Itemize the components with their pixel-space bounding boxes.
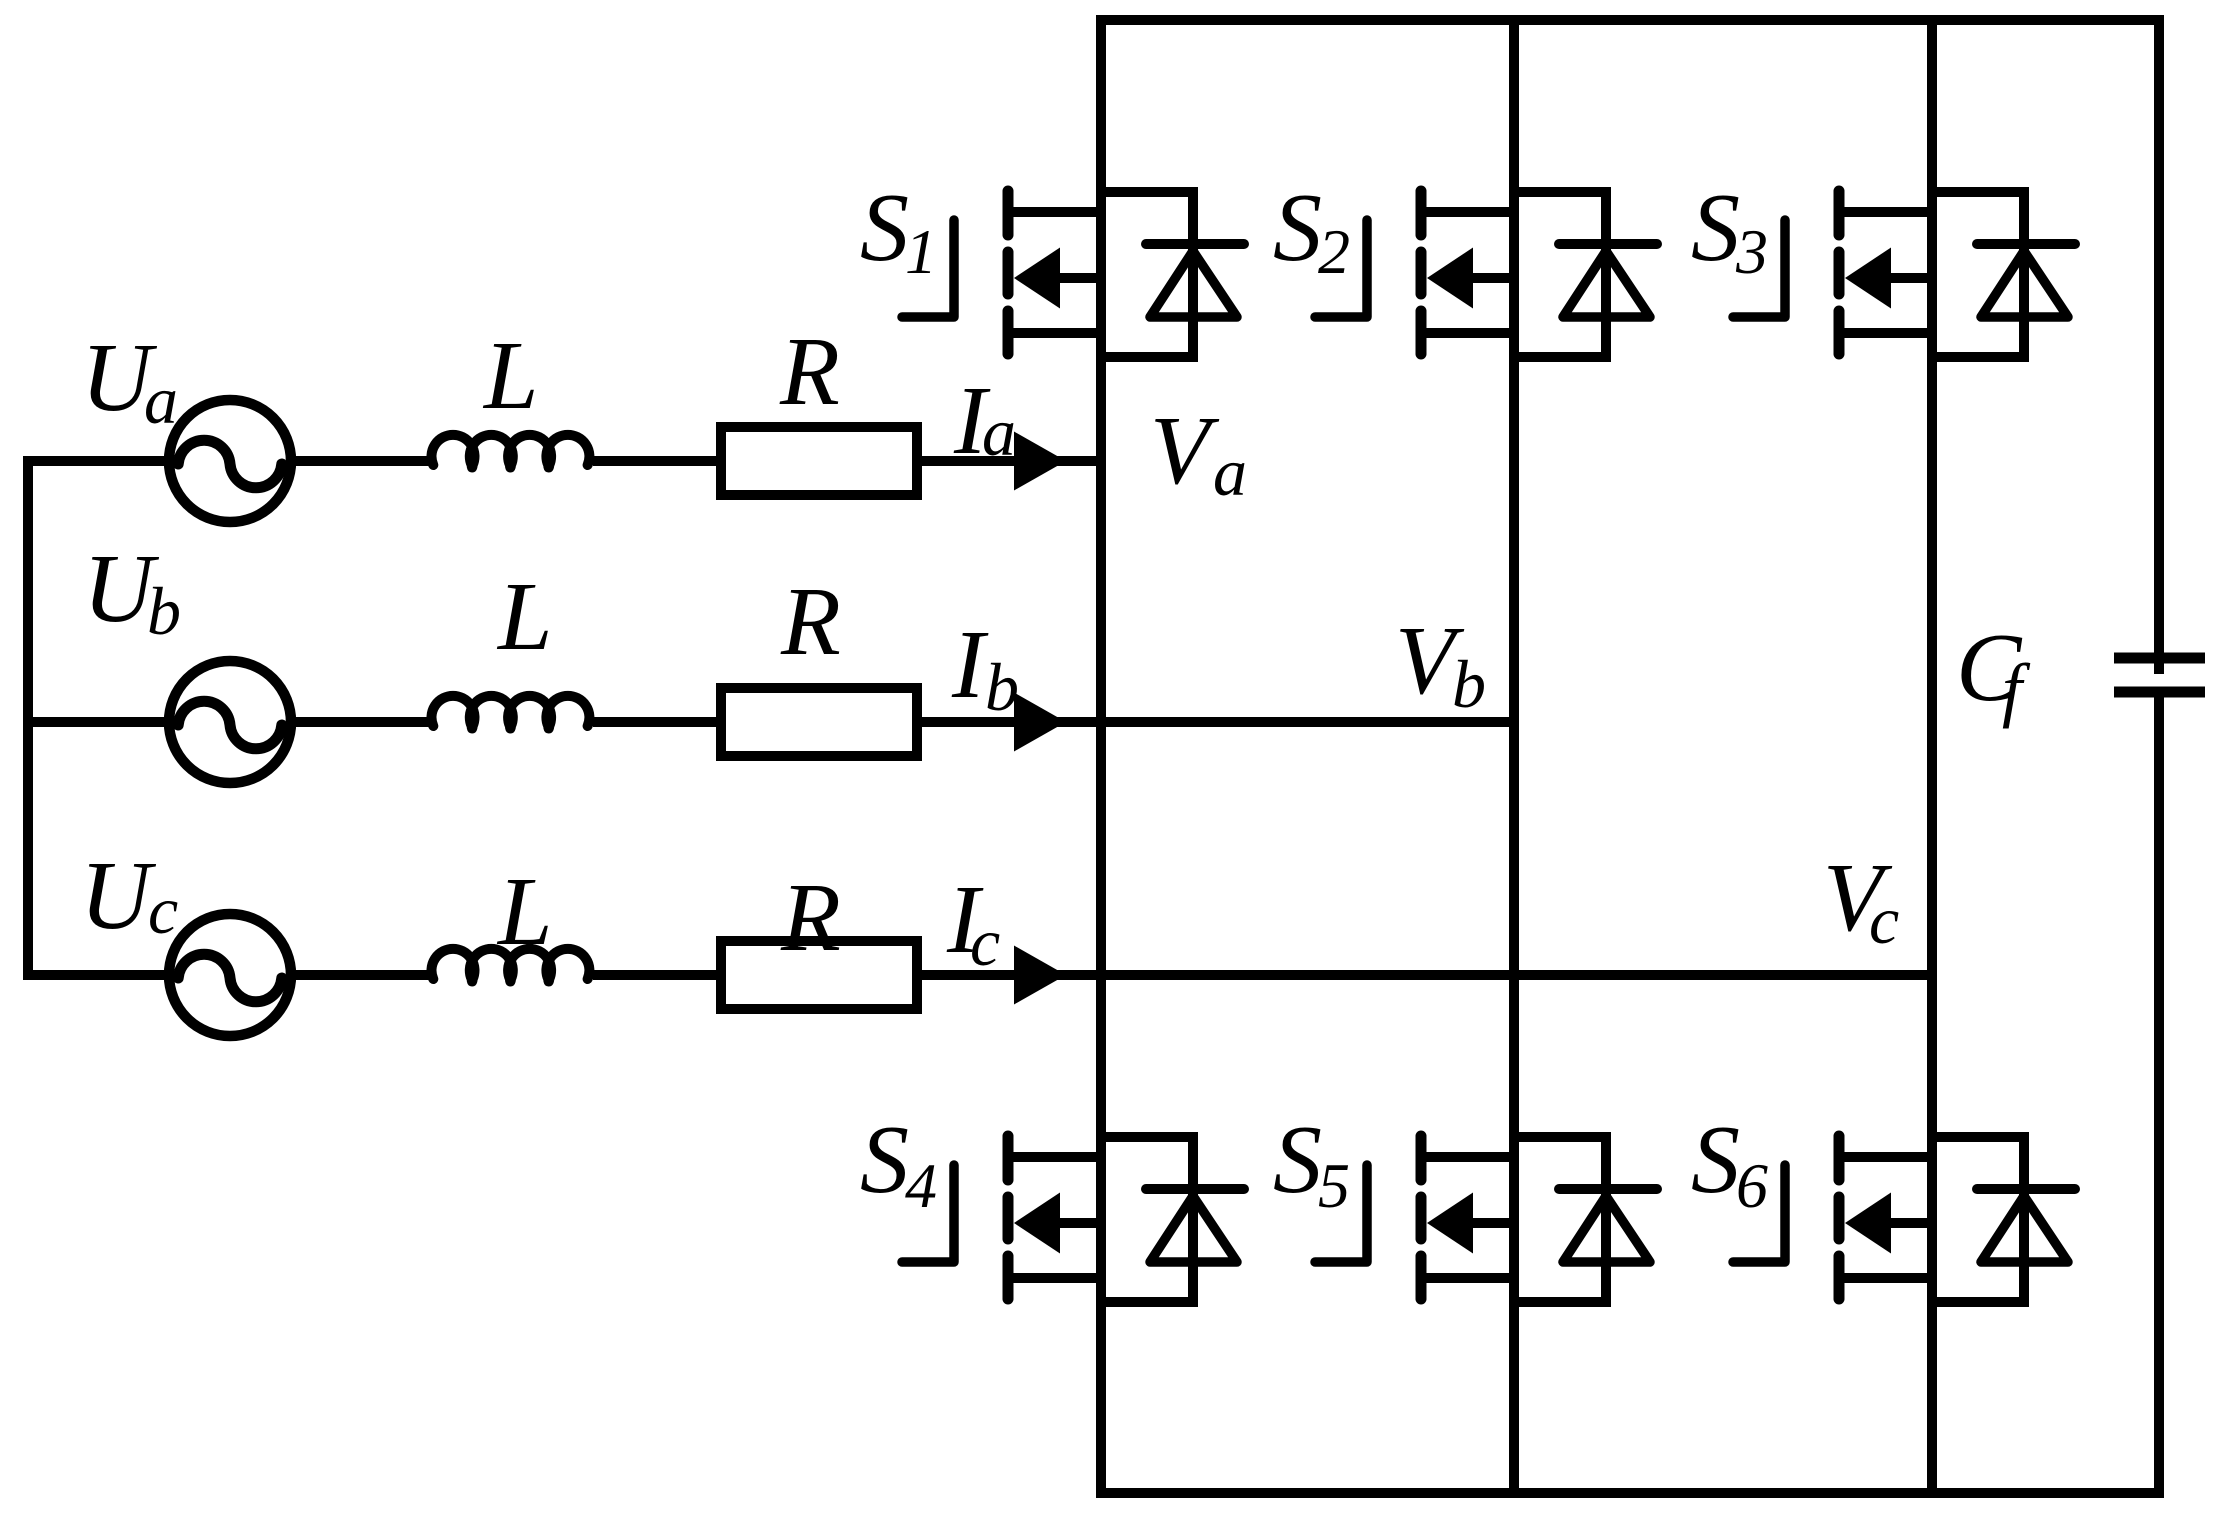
capacitor Cf [2114, 658, 2205, 692]
label R (phase b) [780, 568, 841, 676]
label L (phase c) [496, 858, 553, 966]
label S1 [860, 174, 937, 287]
label S4 [860, 1106, 937, 1221]
svg-text:a: a [982, 394, 1016, 470]
label Ic [946, 866, 1000, 980]
label Ua [81, 324, 178, 438]
diode D5 (antiparallel of S5) [1509, 1132, 1657, 1302]
svg-text:2: 2 [1318, 216, 1350, 287]
AC source Uc [169, 914, 291, 1036]
node Vb label [1395, 607, 1486, 722]
wire: phase-leg A vertical [1096, 15, 1106, 1498]
svg-text:L: L [482, 322, 539, 430]
svg-text:L: L [496, 858, 553, 966]
svg-text:S: S [1691, 1106, 1740, 1214]
wire: bottom DC rail [1096, 1488, 2164, 1498]
svg-text:S: S [1273, 174, 1322, 282]
label L (phase a) [482, 322, 539, 430]
svg-text:R: R [780, 568, 841, 676]
wire: phase b line [23, 717, 1514, 727]
svg-text:b: b [147, 573, 181, 649]
label Ub [83, 535, 181, 649]
svg-text:I: I [951, 611, 989, 719]
label Uc [80, 842, 178, 950]
current arrow Ia [1014, 432, 1066, 491]
wire: right DC rail lower segment [2154, 692, 2164, 1498]
svg-text:c: c [148, 872, 178, 948]
current arrow Ic [1014, 946, 1066, 1005]
diode D1 (antiparallel of S1) [1096, 187, 1244, 357]
wire: phase c line [23, 970, 1932, 980]
svg-text:R: R [780, 864, 841, 972]
diode D2 (antiparallel of S2) [1509, 187, 1657, 357]
svg-text:1: 1 [905, 216, 937, 287]
label Cf [1956, 614, 2031, 729]
svg-text:c: c [970, 904, 1000, 980]
label L (phase b) [496, 563, 553, 671]
AC source Ua [169, 400, 291, 522]
transistor S2 (MOSFET) [1315, 191, 1519, 354]
wire: right DC rail upper segment [2154, 15, 2164, 674]
resistor R (phase a) [721, 427, 917, 495]
transistor S6 (MOSFET) [1733, 1136, 1937, 1299]
svg-text:S: S [860, 174, 909, 282]
label S3 [1691, 174, 1768, 287]
svg-text:S: S [860, 1106, 909, 1214]
diode D6 (antiparallel of S6) [1927, 1132, 2075, 1302]
wire: left neutral rail [23, 456, 33, 980]
resistor R (phase c) [721, 941, 917, 1009]
wire: phase-leg C vertical [1927, 15, 1937, 1498]
svg-text:4: 4 [905, 1150, 937, 1221]
transistor S1 (MOSFET) [902, 191, 1106, 354]
svg-text:a: a [1213, 434, 1247, 510]
label S5 [1273, 1106, 1350, 1221]
svg-text:3: 3 [1735, 216, 1768, 287]
transistor S5 (MOSFET) [1315, 1136, 1519, 1299]
inductor L (phase c) [432, 949, 590, 982]
node Vc label [1823, 844, 1899, 958]
svg-text:6: 6 [1736, 1150, 1768, 1221]
label S6 [1691, 1106, 1768, 1221]
svg-text:L: L [496, 563, 553, 671]
inductor L (phase b) [432, 696, 590, 729]
AC source Ub [169, 661, 291, 783]
label S2 [1273, 174, 1350, 287]
node Va label [1150, 397, 1247, 510]
transistor S3 (MOSFET) [1733, 191, 1937, 354]
diode D3 (antiparallel of S3) [1927, 187, 2075, 357]
label Ib [951, 611, 1019, 725]
svg-text:U: U [80, 842, 157, 950]
svg-text:5: 5 [1318, 1150, 1350, 1221]
svg-text:c: c [1869, 882, 1899, 958]
svg-text:S: S [1273, 1106, 1322, 1214]
wire: top DC rail [1096, 15, 2164, 25]
inductor L (phase a) [432, 435, 590, 468]
svg-text:V: V [1150, 397, 1220, 505]
svg-text:b: b [985, 649, 1019, 725]
diode D4 (antiparallel of S4) [1096, 1132, 1244, 1302]
label Ia [953, 367, 1016, 475]
svg-text:S: S [1691, 174, 1740, 282]
svg-text:a: a [144, 362, 178, 438]
svg-text:R: R [779, 318, 840, 426]
resistor R (phase b) [721, 688, 917, 756]
wire: phase-leg B vertical [1509, 15, 1519, 1498]
current arrow Ib [1014, 693, 1066, 752]
label R (phase c) [780, 864, 841, 972]
wire: phase a line [23, 456, 1101, 466]
transistor S4 (MOSFET) [902, 1136, 1106, 1299]
label R (phase a) [779, 318, 840, 426]
svg-text:b: b [1452, 646, 1486, 722]
